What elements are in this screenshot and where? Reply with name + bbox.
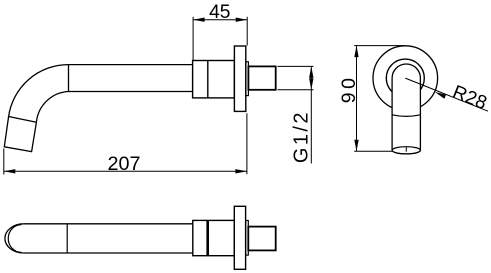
side view bend-tip joint line — [9, 117, 37, 123]
front view middle body circle — [386, 59, 424, 97]
dimension 45 line — [193, 19, 247, 21]
side view body internal line — [207, 61, 209, 98]
svg-text:90: 90 — [338, 75, 360, 104]
dimension 45 left arrow — [193, 18, 205, 22]
dimension G1/2 line — [310, 66, 312, 163]
dimension 207 right extension line — [246, 113, 248, 174]
bottom view tip cap outer arc — [5, 224, 24, 253]
side view body rectangle — [193, 61, 235, 98]
radius R28 arrowhead — [435, 92, 446, 99]
radius R28 leader line — [405, 78, 488, 111]
dimension G1/2 top arrow — [309, 66, 313, 78]
svg-text:45: 45 — [209, 2, 230, 23]
dimension 207 left arrow — [4, 169, 16, 173]
front view tube joint arc — [392, 115, 420, 117]
bottom view wall flange — [234, 206, 245, 269]
front view tube bottom ellipse — [392, 147, 420, 154]
front view outer flange circle — [373, 46, 438, 111]
dimension 45 left extension line — [192, 17, 194, 60]
dimension G1/2 bottom extension line — [278, 89, 314, 91]
bottom view tube bottom edge — [24, 252, 193, 254]
bottom view collar — [246, 221, 249, 256]
svg-text:G1/2: G1/2 — [290, 110, 312, 163]
side view wall flange — [234, 46, 245, 111]
side view threaded nipple G1/2 — [248, 66, 275, 89]
side view tip section — [4, 117, 36, 152]
dimension 207 line — [4, 170, 247, 172]
side view bend outer curve — [9, 65, 69, 117]
svg-text:R28: R28 — [449, 82, 489, 115]
side view tube joint line — [68, 65, 70, 92]
bottom view tube top edge — [24, 223, 193, 225]
bottom view body rectangle — [193, 220, 235, 255]
dimension 90 bottom extension line — [354, 150, 392, 152]
side view spout tube bottom edge — [69, 91, 193, 93]
dimension 45 right arrow — [236, 18, 248, 22]
bottom view tip cap inner arc — [8, 225, 21, 253]
dimension G1/2 top extension line — [278, 65, 314, 67]
dimension 90 line — [356, 46, 358, 152]
dimension 207 left extension line — [3, 149, 5, 175]
front view spout tube (occluding) — [392, 64, 420, 154]
svg-text:207: 207 — [107, 153, 140, 175]
dimension G1/2 bottom arrow — [309, 78, 313, 90]
side view spout tube top edge — [69, 64, 193, 66]
bottom view tube joint line — [66, 224, 68, 253]
dimension 90 bottom arrow — [354, 140, 358, 152]
bottom view threaded nipple — [248, 227, 275, 251]
side view bend inner curve — [36, 92, 68, 123]
dimension 90 top extension line — [354, 45, 404, 47]
dimension 90 top arrow — [354, 46, 358, 58]
front view tube bottom center tick — [405, 147, 407, 152]
dimension 45 right extension line — [246, 17, 248, 46]
dimension 207 right arrow — [235, 169, 247, 173]
side view collar — [246, 62, 249, 96]
bottom view body internal thick line — [206, 220, 209, 255]
